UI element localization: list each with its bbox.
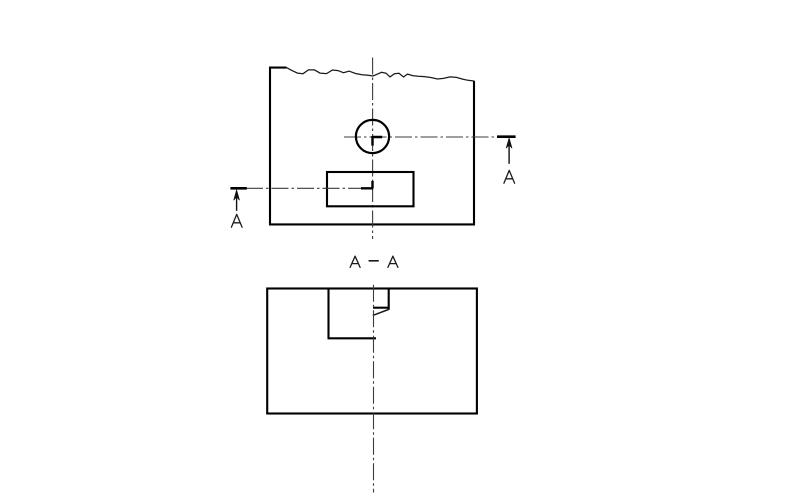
section title "A - A" (stick glyphs) bbox=[350, 256, 398, 267]
section view: slot cut bottom bbox=[328, 337, 377, 339]
section view: hole cut right wall bbox=[388, 289, 390, 310]
section view: slanted break line under hole bottom bbox=[373, 310, 389, 316]
hole circle bbox=[356, 120, 389, 153]
section view: hole cut bottom bbox=[373, 307, 389, 309]
cutting plane thick end segment, right bbox=[497, 135, 516, 138]
vertical centerline of top view bbox=[372, 58, 374, 240]
left viewing-direction arrow bbox=[234, 190, 240, 211]
horizontal centerline through hole (also cutting-plane trace, right) bbox=[344, 136, 498, 138]
cutting plane thick bend at slot (horizontal + vertical) bbox=[361, 181, 373, 188]
top view: part outline (left edge, bottom edge, right edge) bbox=[270, 68, 474, 225]
top view: short top-left edge segment bbox=[269, 67, 287, 69]
cutting plane thick end segment, left bbox=[230, 187, 246, 190]
vertical centerline of section view bbox=[373, 285, 375, 493]
section view: outer rectangle bbox=[267, 289, 477, 414]
right section letter A (stick glyph) bbox=[504, 170, 515, 183]
section view: slot cut left wall bbox=[327, 289, 329, 339]
top view: freehand break (wavy) line bbox=[287, 68, 474, 81]
slot rectangle (pocket) bbox=[327, 172, 414, 206]
cutting-plane trace at slot level (thin dash-dot from left) bbox=[246, 187, 361, 189]
cutting plane thick bend at hole center (horizontal + vertical) bbox=[373, 136, 383, 146]
right viewing-direction arrow bbox=[506, 138, 512, 164]
left section letter A (stick glyph) bbox=[231, 214, 242, 227]
